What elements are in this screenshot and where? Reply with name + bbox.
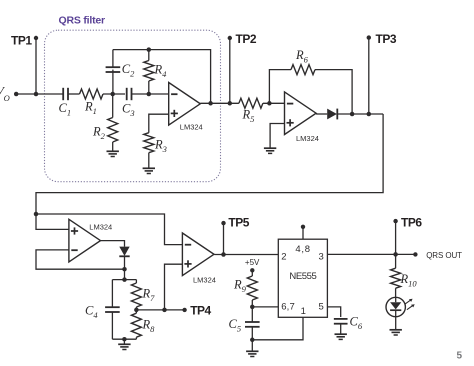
capacitor C3: [126, 88, 128, 100]
wire routing right side down and left to comparator: [36, 114, 383, 229]
diode D2: [119, 247, 129, 256]
wire U4 output to NE555 pin 2: [214, 254, 278, 256]
test point TP3: [367, 35, 371, 39]
test point TP2: [228, 36, 232, 40]
resistor R1: [80, 89, 104, 99]
svg-text:O: O: [4, 93, 10, 103]
op-amp U2 LM324 (rectifier): [285, 92, 317, 135]
resistor R7: [135, 280, 137, 283]
node peak detector junction: [122, 267, 127, 272]
node pin1 return junction: [250, 338, 255, 343]
capacitor C1: [62, 88, 64, 100]
svg-text:2: 2: [281, 251, 286, 262]
wire pin 3 output: [327, 253, 415, 255]
wire pin 4,8 supply stub: [302, 227, 304, 239]
wire TP2 vertical: [229, 38, 231, 103]
node R4 bottom junction: [147, 92, 152, 97]
node R6 tap junction: [267, 101, 272, 106]
capacitor C4: [111, 280, 113, 308]
node U4 plus tap junction: [162, 308, 167, 313]
svg-text:1: 1: [301, 306, 306, 317]
node TP5 junction: [221, 252, 226, 257]
svg-text:5: 5: [457, 350, 463, 361]
svg-text:QRS filter: QRS filter: [59, 15, 106, 27]
resistor R9: [251, 270, 253, 276]
wire TP5 vertical: [223, 223, 225, 254]
svg-text:LM324: LM324: [193, 275, 216, 284]
node R6 return junction: [350, 112, 355, 117]
node TP2 junction: [228, 101, 233, 106]
wire divider bracket top: [112, 279, 136, 281]
test point TP6: [393, 219, 397, 223]
wire TP6 vertical: [395, 221, 397, 254]
svg-text:5: 5: [319, 302, 324, 313]
node TP6/R10 junction: [393, 252, 398, 257]
capacitor C6: [334, 318, 348, 320]
test point TP4: [182, 308, 186, 312]
ground below U2 plus input: [264, 147, 276, 149]
node TP3 junction: [367, 112, 372, 117]
terminal +5V dot: [250, 268, 254, 272]
node ground junction: [122, 337, 127, 342]
svg-text:+5V: +5V: [245, 258, 260, 267]
ground below R2: [107, 150, 119, 152]
op-amp U1 LM324 (filter): [169, 83, 201, 126]
resistor R2: [112, 94, 114, 118]
capacitor C5: [251, 307, 253, 322]
wire diode D1 to corner: [337, 113, 383, 115]
svg-text:TP4: TP4: [190, 304, 211, 318]
wire node to pin 6,7: [252, 306, 278, 308]
node junction R1/C2/R2: [110, 92, 115, 97]
node feedback junction: [208, 101, 213, 106]
resistor R4: [148, 50, 150, 61]
wire op-amp U1 output to R5: [200, 102, 239, 104]
wire R1 to C3: [103, 93, 125, 95]
svg-text:TP5: TP5: [228, 216, 249, 230]
wire LED to ground: [395, 317, 397, 330]
svg-text:LM324: LM324: [296, 134, 319, 143]
wire U2 output to diode D1: [316, 113, 327, 115]
resistor R6 feedback: [269, 70, 291, 104]
wire U3 minus feedback loop: [36, 250, 125, 269]
wire C1 to R1: [68, 93, 79, 95]
resistor R8: [131, 313, 141, 337]
svg-text:TP3: TP3: [376, 32, 397, 46]
terminal QRS OUT dot: [413, 252, 417, 256]
svg-text:TP1: TP1: [11, 33, 32, 47]
resistor R5: [239, 98, 263, 108]
wire C3 to op-amp minus input: [132, 93, 169, 95]
svg-text:TP2: TP2: [236, 32, 257, 46]
op-amp U4 LM324 (comparator): [182, 233, 214, 276]
LED D3: [386, 297, 405, 316]
svg-text:6,7: 6,7: [281, 302, 295, 313]
input terminal dot: [14, 92, 19, 97]
svg-text:3: 3: [319, 251, 324, 262]
terminal pin 4,8 supply dot: [301, 225, 305, 229]
wire pin 5 to C6: [327, 307, 340, 317]
ground below C5: [246, 350, 258, 352]
svg-text:LM324: LM324: [180, 123, 203, 132]
node R7/R8 divider junction: [134, 308, 139, 313]
ground below LED: [390, 329, 402, 331]
svg-text:4,8: 4,8: [295, 244, 310, 255]
node R9/C5 junction: [250, 305, 255, 310]
node R4 top junction: [147, 47, 152, 52]
wire pin 1 to ground rail: [252, 317, 303, 340]
node TP1 junction: [34, 92, 39, 97]
wire diode D2 to peak node: [124, 256, 126, 279]
timer U5 NE555 box: [278, 239, 327, 317]
wire divider bracket bottom: [112, 338, 136, 340]
wire TP1 vertical: [35, 38, 37, 94]
ground below divider: [118, 343, 130, 345]
ground below C6: [335, 333, 347, 335]
wire U2 plus input to ground: [270, 124, 284, 149]
svg-text:NE555: NE555: [289, 271, 316, 282]
wire feedback from op-amp output over C2/R4: [113, 50, 211, 104]
node divider top junction: [122, 277, 127, 282]
test point TP5: [221, 221, 225, 225]
capacitor C2: [112, 70, 114, 94]
wire TP3 vertical: [368, 38, 370, 114]
wire U3 output to diode D2: [101, 241, 125, 247]
svg-text:TP6: TP6: [401, 216, 422, 230]
svg-text:QRS OUT: QRS OUT: [426, 251, 462, 260]
wire U4 plus input from divider: [165, 264, 183, 310]
wire divider node to TP4: [136, 309, 184, 311]
resistor R10: [395, 254, 397, 268]
resistor R3: [149, 114, 169, 133]
ground below R3: [143, 167, 155, 169]
node signal junction: [34, 212, 39, 217]
svg-text:LM324: LM324: [89, 222, 112, 231]
wire input to C1: [16, 93, 63, 95]
diode D1: [327, 109, 337, 120]
wire R5 to U2 minus input: [263, 102, 285, 104]
wire signal to U4 minus input: [36, 214, 182, 245]
op-amp U3 LM324 (peak detector): [69, 219, 101, 262]
QRS filter dashed boundary box: [45, 30, 221, 182]
LED arrows: [405, 300, 411, 304]
test point TP1: [34, 36, 38, 40]
